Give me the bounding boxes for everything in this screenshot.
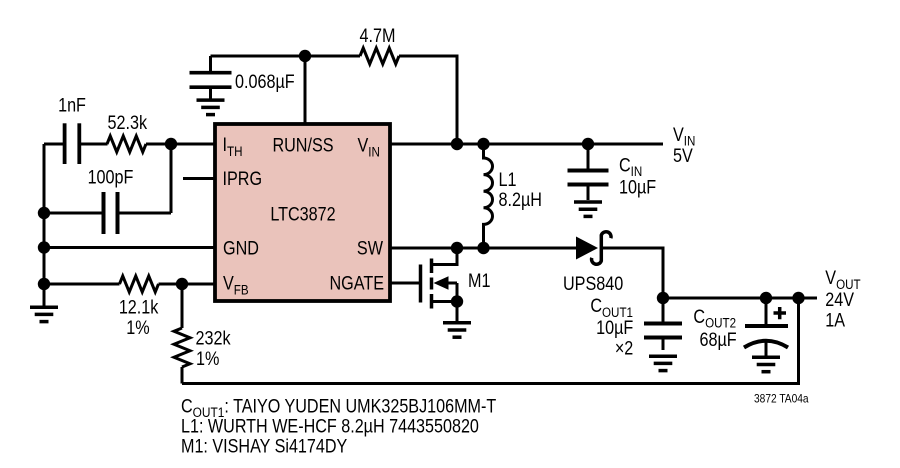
capacitor COUT1 plates <box>644 324 682 351</box>
wire 232k down to bottom feedback rail <box>181 367 184 384</box>
svg-text:232k: 232k <box>196 327 231 349</box>
ref label L1 <box>499 169 517 191</box>
value label 8.2uH <box>499 189 542 211</box>
node junction ITH/100pF <box>165 138 177 150</box>
ref label UPS840 <box>563 273 623 295</box>
pin label VFB <box>223 272 249 297</box>
pin label SW <box>357 237 383 259</box>
resistor R 232k vertical <box>174 328 190 367</box>
capacitor COUT1 stub <box>662 298 665 322</box>
ground left rail <box>30 307 58 321</box>
value label 4.7M <box>360 25 396 47</box>
svg-text:M1: M1 <box>468 270 491 292</box>
capacitor C 0.068uF plates <box>190 73 232 99</box>
svg-text:10µF: 10µF <box>596 317 633 339</box>
wire left rail to 1nF <box>44 143 64 146</box>
net label 1A <box>825 309 845 331</box>
node junction VOUT/feedback <box>792 292 804 304</box>
svg-text:1nF: 1nF <box>58 94 86 116</box>
svg-text:1%: 1% <box>196 347 219 369</box>
wire diode to VOUT corner <box>601 248 663 298</box>
wire 100pF bottom right segment <box>118 212 172 215</box>
resistor R 52.3k <box>107 136 146 152</box>
pin label RUN/SS <box>272 134 333 156</box>
svg-text:5V: 5V <box>673 145 693 167</box>
wire 1nF to 52.3k <box>79 143 108 146</box>
ground below M1 <box>443 323 471 337</box>
resistor R 4.7M <box>360 48 399 64</box>
wire bottom feedback rail <box>182 298 799 384</box>
capacitor COUT2 top plate <box>745 324 788 328</box>
svg-text:L1: WURTH WE-HCF 8.2µH 7443550: L1: WURTH WE-HCF 8.2µH 7443550820 <box>181 415 479 437</box>
polarity label plus <box>774 307 787 319</box>
value label 1nF <box>58 94 86 116</box>
IC U1 name label LTC3872 <box>270 203 335 225</box>
svg-text:×2: ×2 <box>615 337 633 359</box>
svg-text:24V: 24V <box>825 289 854 311</box>
ground below COUT2 <box>752 357 780 371</box>
node junction left rail GND <box>38 241 50 253</box>
node junction VOUT/COUT1 <box>657 292 669 304</box>
transistor Q M1 source connection <box>432 300 458 303</box>
svg-text:M1: VISHAY Si4174DY: M1: VISHAY Si4174DY <box>181 435 348 457</box>
figure tag 3872 TA04a <box>754 393 809 406</box>
value label 68uF <box>700 329 737 351</box>
svg-text:3872 TA04a: 3872 TA04a <box>754 393 809 406</box>
ref label M1 <box>468 270 491 292</box>
wire VFB node down to 232k <box>181 284 184 328</box>
net label VOUT <box>825 267 860 292</box>
transistor Q M1 arrow line <box>446 283 457 302</box>
node junction at RUN/SS top rail <box>299 50 311 62</box>
value label 10uF (CIN) <box>619 176 656 198</box>
svg-text:4.7M: 4.7M <box>360 25 396 47</box>
ref label COUT1 <box>590 295 633 320</box>
qty label x2 <box>615 337 633 359</box>
wire 12.1k to VFB pin <box>159 283 216 286</box>
capacitor CIN stub <box>587 144 590 169</box>
value label 100pF <box>88 166 134 188</box>
wire IPRG stub <box>183 177 215 180</box>
wire 100pF bottom left segment <box>44 212 103 215</box>
value label 52.3k <box>108 112 148 134</box>
svg-text:SW: SW <box>357 237 383 259</box>
svg-text:GND: GND <box>223 237 259 259</box>
value label 232k <box>196 327 231 349</box>
wire NGATE pin to gate <box>390 282 419 285</box>
capacitor COUT2 lower stub <box>765 341 768 357</box>
node junction SW/M1 drain <box>451 242 463 254</box>
transistor Q M1 body segments <box>430 259 434 309</box>
node junction SW/L1 <box>477 242 489 254</box>
value label 10uF (COUT1) <box>596 317 633 339</box>
wire SW pin rail <box>390 247 576 250</box>
svg-text:NGATE: NGATE <box>329 272 384 294</box>
value label 0.068uF <box>235 71 295 93</box>
diode D UPS840 anode triangle <box>576 237 598 260</box>
wire VFB left to 12.1k <box>44 283 120 286</box>
note line 2 L1 part <box>181 415 479 437</box>
ground below CIN <box>574 202 602 216</box>
node junction VFB/232k <box>176 278 188 290</box>
svg-text:IPRG: IPRG <box>223 168 263 190</box>
svg-text:0.068µF: 0.068µF <box>235 71 295 93</box>
wire 100pF right vertical <box>170 144 173 213</box>
pin label IPRG <box>223 168 263 190</box>
svg-text:68µF: 68µF <box>700 329 737 351</box>
IC U1 LTC3872 body <box>215 124 390 301</box>
svg-text:1%: 1% <box>126 316 149 338</box>
node junction VIN/CIN <box>582 138 594 150</box>
wire RUN/SS node to resistor 4.7M start <box>305 55 360 58</box>
svg-text:L1: L1 <box>499 169 517 191</box>
capacitor C 1nF plates <box>65 123 80 164</box>
resistor R 12.1k <box>120 276 159 292</box>
wire left rail vertical <box>43 144 46 307</box>
net label 5V <box>673 145 693 167</box>
pin label VIN (pin) <box>358 134 380 159</box>
svg-text:52.3k: 52.3k <box>108 112 148 134</box>
wire M1 source to ground <box>456 302 459 324</box>
capacitor COUT2 stub <box>765 298 768 324</box>
inductor L1 <box>484 144 493 248</box>
node junction VIN/4.7M <box>451 138 463 150</box>
wire top rail from 0.068uF to RUN/SS node <box>211 55 306 58</box>
pin label GND <box>223 237 259 259</box>
capacitor COUT2 curved plate <box>744 341 788 348</box>
svg-text:RUN/SS: RUN/SS <box>272 134 333 156</box>
tolerance label 1% (12.1k) <box>126 316 149 338</box>
node junction M1 source <box>451 295 463 307</box>
net label 24V <box>825 289 854 311</box>
note line 1 COUT1 part <box>181 395 496 420</box>
svg-text:12.1k: 12.1k <box>119 296 159 318</box>
node junction left rail VFB <box>38 278 50 290</box>
wire GND pin <box>44 246 215 249</box>
svg-text:LTC3872: LTC3872 <box>270 203 335 225</box>
node junction left rail 100pF <box>38 207 50 219</box>
node junction VIN/L1 <box>477 138 489 150</box>
wire 4.7M to VIN rail corner <box>399 56 457 144</box>
transistor Q M1 arrowhead <box>434 276 449 290</box>
svg-text:8.2µH: 8.2µH <box>499 189 542 211</box>
wire VIN pin rail <box>390 143 663 146</box>
svg-text:10µF: 10µF <box>619 176 656 198</box>
wire VOUT rail <box>663 297 817 300</box>
capacitor CIN plates <box>568 171 609 201</box>
transistor Q M1 gate bar <box>419 265 423 303</box>
capacitor C 100pF plates <box>104 192 118 234</box>
net label VIN <box>673 123 695 148</box>
tolerance label 1% (232k) <box>196 347 219 369</box>
pin label NGATE <box>329 272 384 294</box>
ground below COUT1 <box>649 356 677 370</box>
svg-text:1A: 1A <box>825 309 845 331</box>
wire 52.3k to ITH pin <box>146 143 215 146</box>
wire RUN/SS vertical into IC top <box>304 56 307 124</box>
ref label COUT2 <box>693 305 736 330</box>
ground below 0.068uF <box>197 100 225 115</box>
ref label CIN <box>619 154 642 179</box>
svg-text:100pF: 100pF <box>88 166 134 188</box>
note line 3 M1 part <box>181 435 348 457</box>
svg-text:UPS840: UPS840 <box>563 273 623 295</box>
pin label ITH <box>223 134 243 159</box>
value label 12.1k <box>119 296 159 318</box>
capacitor C 0.068uF stub <box>209 56 212 72</box>
diode D UPS840 schottky bar <box>592 232 611 265</box>
transistor Q M1 drain connection <box>432 248 458 265</box>
node junction VOUT/COUT2 <box>760 292 772 304</box>
